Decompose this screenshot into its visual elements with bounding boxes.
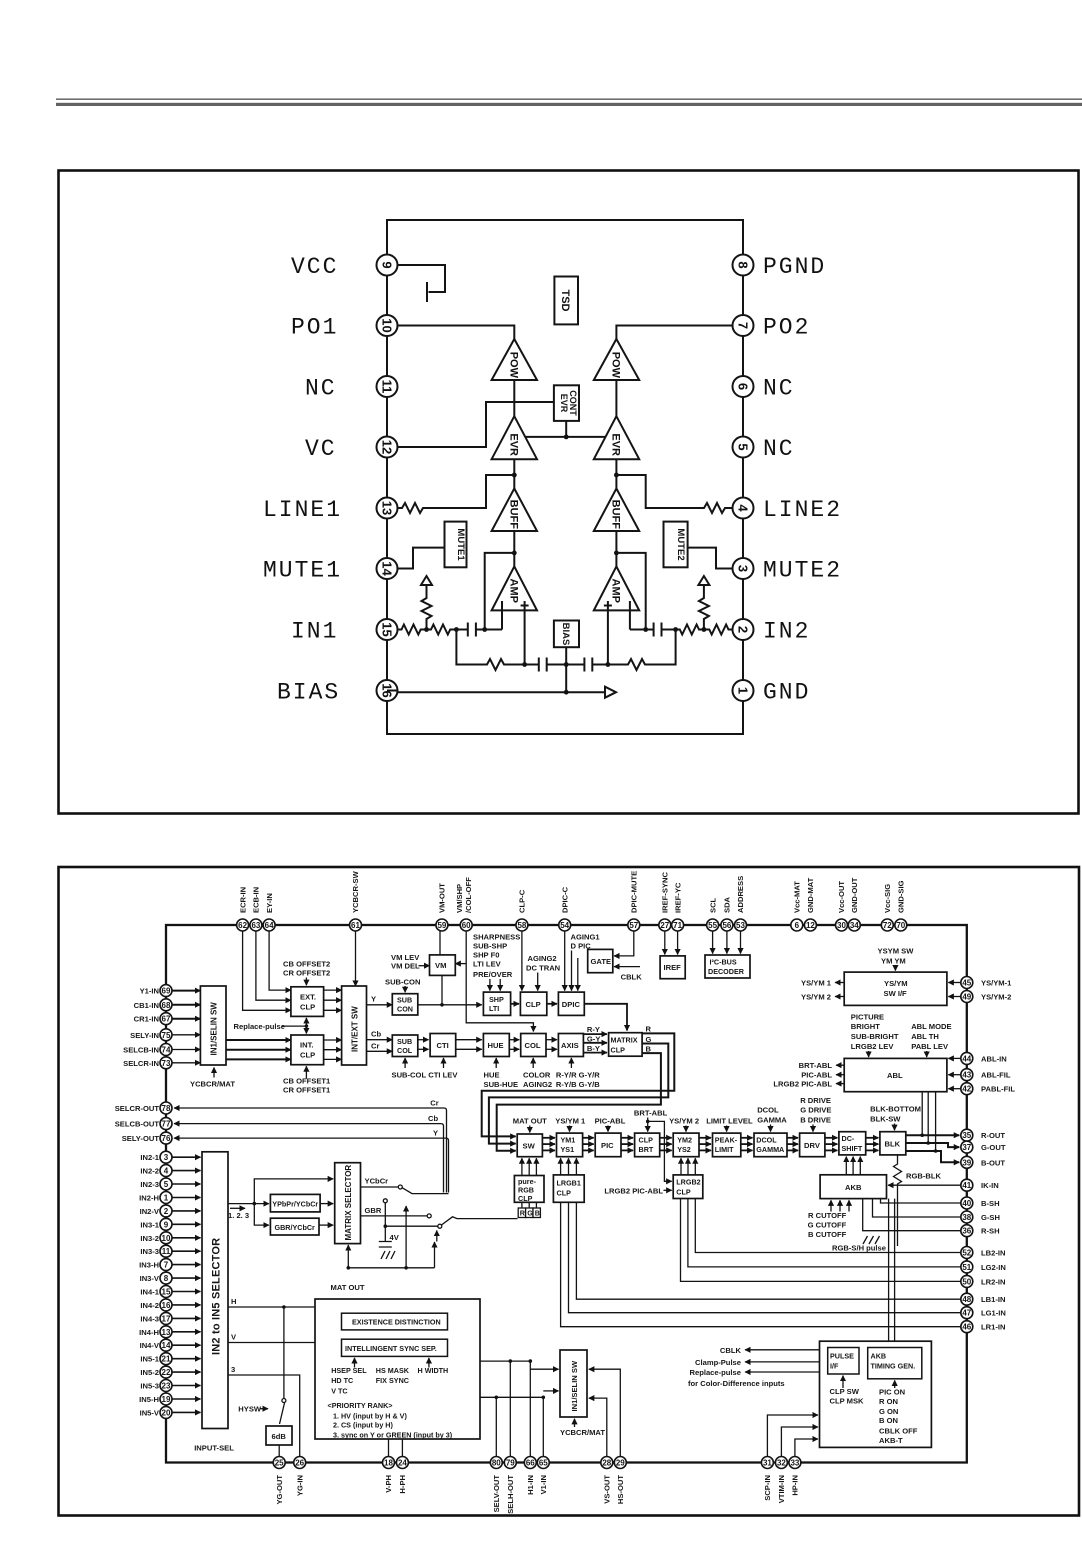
svg-text:CON: CON xyxy=(397,1004,413,1013)
block AXIS xyxy=(558,1034,583,1057)
svg-text:INPUT-SEL: INPUT-SEL xyxy=(194,1443,234,1452)
svg-text:68: 68 xyxy=(162,1001,171,1010)
pin 35 R-OUT xyxy=(961,1129,1006,1141)
svg-text:HS MASK: HS MASK xyxy=(376,1366,410,1375)
svg-text:7: 7 xyxy=(164,1261,169,1270)
svg-text:19: 19 xyxy=(162,1395,171,1404)
arrows into ABL top xyxy=(869,1051,927,1057)
wire pin64 to EXT.CLP xyxy=(269,931,291,990)
block MATRIX CLP xyxy=(609,1033,643,1057)
svg-text:SELCB-OUT: SELCB-OUT xyxy=(115,1120,160,1129)
labels AGING2 DC TRAN with arrow xyxy=(526,954,560,991)
svg-text:VC: VC xyxy=(305,436,337,462)
svg-text:LB1-IN: LB1-IN xyxy=(981,1295,1005,1304)
svg-text:LRGB2 PIC-ABL: LRGB2 PIC-ABL xyxy=(604,1186,663,1195)
wire pin60 to VM and COL xyxy=(455,931,533,1032)
svg-text:PABL LEV: PABL LEV xyxy=(911,1042,949,1051)
pin 71 IREF-YC xyxy=(672,882,684,931)
ground symbol xyxy=(381,1251,395,1259)
pin 33 HP-IN xyxy=(789,1457,801,1496)
label CB OFFSET1 CR OFFSET1 with arrow xyxy=(283,1066,331,1094)
svg-text:LB2-IN: LB2-IN xyxy=(981,1249,1005,1258)
svg-text:CR OFFSET1: CR OFFSET1 xyxy=(283,1085,331,1094)
svg-text:71: 71 xyxy=(673,921,682,930)
block IREF xyxy=(660,956,685,979)
svg-text:PRE/OVER: PRE/OVER xyxy=(473,970,513,979)
svg-text:IN2-3: IN2-3 xyxy=(140,1180,159,1189)
svg-text:RGB-BLK: RGB-BLK xyxy=(906,1172,942,1181)
block DRV xyxy=(800,1133,825,1157)
svg-text:30: 30 xyxy=(837,921,846,930)
wire VC pin12 to EVR CONT xyxy=(398,402,554,447)
svg-text:60: 60 xyxy=(462,921,471,930)
pin 6 Vcc-MAT xyxy=(791,881,803,931)
svg-text:SUB: SUB xyxy=(397,995,412,1004)
svg-text:PIC: PIC xyxy=(601,1141,614,1150)
pin 32 VTIM-IN xyxy=(775,1457,787,1504)
svg-text:IN2-V: IN2-V xyxy=(140,1207,160,1216)
svg-text:V: V xyxy=(231,1333,237,1342)
pin 58 CLP-C xyxy=(516,889,528,931)
R G B small boxes xyxy=(518,1202,540,1217)
svg-text:INT/EXT SW: INT/EXT SW xyxy=(351,1006,360,1052)
svg-text:MATRIX SELECTOR: MATRIX SELECTOR xyxy=(344,1165,353,1241)
labels CLP SW CLP MSK xyxy=(830,1387,865,1406)
svg-text:BRT-ABL: BRT-ABL xyxy=(799,1061,833,1070)
svg-text:YS/YM-2: YS/YM-2 xyxy=(981,993,1011,1002)
svg-text:CB OFFSET2: CB OFFSET2 xyxy=(283,959,330,968)
wire chain SHP LTI to CLP xyxy=(511,1003,519,1005)
svg-text:YG-IN: YG-IN xyxy=(295,1475,304,1496)
svg-text:YS2: YS2 xyxy=(677,1145,691,1154)
IN pin group circles xyxy=(139,1151,200,1418)
svg-text:INT.: INT. xyxy=(300,1041,314,1050)
pin 74 SELCB-IN xyxy=(123,1044,172,1056)
block YM1 YS1 xyxy=(557,1133,583,1157)
block IN1/SELIN SW xyxy=(200,986,226,1065)
pin 54 DPIC-C xyxy=(559,886,571,931)
svg-text:CLP MSK: CLP MSK xyxy=(830,1397,865,1406)
svg-text:21: 21 xyxy=(162,1355,171,1364)
svg-text:CLP: CLP xyxy=(611,1046,626,1055)
svg-text:HSEP SEL: HSEP SEL xyxy=(331,1366,367,1375)
svg-text:MAT OUT: MAT OUT xyxy=(331,1283,365,1292)
pin 57 DPIC-MUTE xyxy=(628,871,640,931)
block DCOL GAMMA xyxy=(754,1133,787,1157)
wires pins 55 56 53 to I2C-BUS DECODER xyxy=(713,931,741,954)
sync separator outer box xyxy=(315,1299,480,1439)
svg-text:3: 3 xyxy=(231,1365,235,1374)
svg-text:1. 2. 3: 1. 2. 3 xyxy=(228,1211,249,1220)
pin 21 IN5-1 xyxy=(140,1353,200,1365)
AMP2 plus input bias wire with resistor xyxy=(608,630,676,671)
block YS/YM SW I/F xyxy=(844,972,947,1005)
pin 2 IN2-V xyxy=(140,1205,201,1217)
svg-text:2: 2 xyxy=(164,1207,169,1216)
svg-text:4: 4 xyxy=(164,1167,169,1176)
svg-text:PULSE: PULSE xyxy=(830,1352,854,1361)
svg-text:26: 26 xyxy=(295,1459,304,1468)
wire Cb to SUB COL xyxy=(367,1029,393,1039)
chain wires SW to YM1 xyxy=(542,1138,555,1151)
svg-text:YS/YM: YS/YM xyxy=(884,979,908,988)
output wire G-OUT xyxy=(906,1141,960,1147)
svg-text:34: 34 xyxy=(850,921,859,930)
wires LRGB1 CLP to LR1/LG1/LB1 pins xyxy=(561,1202,961,1326)
svg-text:HUE: HUE xyxy=(484,1070,500,1079)
selector 1.2.3 bus wire xyxy=(228,1179,333,1225)
label PIC-ABL with arrow xyxy=(595,1117,626,1132)
pin 56 SDA xyxy=(721,896,733,931)
svg-text:V-PH: V-PH xyxy=(384,1475,393,1493)
wires HUE to COL xyxy=(509,1040,519,1050)
svg-text:GND-SIG: GND-SIG xyxy=(897,880,906,913)
svg-text:SELCB-IN: SELCB-IN xyxy=(123,1046,159,1055)
svg-text:BUFF: BUFF xyxy=(610,500,622,530)
svg-text:CBLK: CBLK xyxy=(720,1346,742,1355)
svg-text:15: 15 xyxy=(162,1288,171,1297)
svg-text:CB OFFSET1: CB OFFSET1 xyxy=(283,1076,331,1085)
chain wires YM2 to PEAK-LIMIT xyxy=(699,1138,711,1151)
svg-text:AGING2: AGING2 xyxy=(528,954,557,963)
pin 49 YS/YM-2 xyxy=(961,991,1012,1003)
pin 26 YG-IN xyxy=(294,1457,306,1497)
svg-text:EVR: EVR xyxy=(508,433,520,456)
wires COL to AXIS xyxy=(546,1040,557,1050)
svg-text:61: 61 xyxy=(351,921,360,930)
wire YPbPr to MATRIX SELECTOR xyxy=(320,1203,333,1205)
pin 1 GND xyxy=(733,680,811,706)
svg-text:PIC-ABL: PIC-ABL xyxy=(595,1117,626,1126)
svg-text:CBLK OFF: CBLK OFF xyxy=(879,1426,918,1435)
svg-text:13: 13 xyxy=(380,501,395,515)
wire BUFF1 to AMP1 with output node xyxy=(512,531,517,566)
svg-text:SELY-IN: SELY-IN xyxy=(130,1031,159,1040)
svg-text:4V: 4V xyxy=(390,1233,400,1242)
svg-text:G DRIVE: G DRIVE xyxy=(800,1106,831,1115)
svg-text:R-Y/B G-Y/B: R-Y/B G-Y/B xyxy=(556,1080,600,1089)
svg-text:10: 10 xyxy=(380,318,395,332)
svg-text:YS1: YS1 xyxy=(561,1145,575,1154)
priority rank text xyxy=(328,1401,453,1439)
pin 34 GND-OUT xyxy=(848,877,860,931)
svg-text:76: 76 xyxy=(162,1134,171,1143)
label RGB-S/H pulse with hatch xyxy=(832,1236,886,1252)
svg-text:74: 74 xyxy=(162,1046,171,1055)
svg-text:LINE2: LINE2 xyxy=(763,497,842,523)
svg-text:IN5-V: IN5-V xyxy=(140,1408,160,1417)
block MATRIX SELECTOR xyxy=(335,1163,361,1244)
label CBLK with arrow to GATE xyxy=(614,967,642,982)
svg-text:G: G xyxy=(646,1035,652,1044)
svg-text:48: 48 xyxy=(962,1295,971,1304)
wire pin62 to EXT.CLP xyxy=(243,931,291,1010)
wire pin63 to EXT.CLP xyxy=(256,931,291,1000)
svg-text:ADDRESS: ADDRESS xyxy=(736,876,745,913)
svg-text:65: 65 xyxy=(539,1459,548,1468)
block EXT. CLP xyxy=(291,987,324,1017)
svg-text:3. sync on Y or GREEN (input b: 3. sync on Y or GREEN (input by 3) xyxy=(333,1430,453,1439)
svg-text:COL: COL xyxy=(525,1041,541,1050)
svg-text:CLP: CLP xyxy=(676,1188,691,1197)
svg-text:B: B xyxy=(646,1045,652,1054)
svg-text:VS-OUT: VS-OUT xyxy=(603,1475,612,1504)
svg-text:70: 70 xyxy=(896,921,905,930)
V output wire xyxy=(228,1333,315,1343)
svg-text:LRGB2 PIC-ABL: LRGB2 PIC-ABL xyxy=(773,1080,832,1089)
svg-text:SHIFT: SHIFT xyxy=(842,1144,863,1153)
V-PH H-PH wires xyxy=(389,1439,403,1457)
pin 77 SELCB-OUT xyxy=(115,1118,172,1130)
wire VM to pin 59 xyxy=(439,931,441,955)
pin 17 IN4-3 xyxy=(140,1312,200,1324)
svg-text:ABL TH: ABL TH xyxy=(911,1032,939,1041)
svg-text:62: 62 xyxy=(238,921,247,930)
pin 16 IN4-2 xyxy=(140,1299,200,1311)
svg-text:41: 41 xyxy=(962,1181,971,1190)
svg-text:GAMMA: GAMMA xyxy=(757,1116,787,1125)
svg-text:SUB-CON: SUB-CON xyxy=(385,977,420,986)
svg-text:SUB: SUB xyxy=(397,1037,412,1046)
labels PIC ON R ON G ON B ON CBLK OFF AKB-T xyxy=(879,1388,918,1446)
pin 65 V1-IN xyxy=(537,1457,549,1495)
pin 14 IN4-V xyxy=(140,1339,201,1351)
svg-text:IN5-1: IN5-1 xyxy=(140,1355,159,1364)
svg-text:12: 12 xyxy=(380,440,395,454)
svg-text:IK-IN: IK-IN xyxy=(981,1181,999,1190)
svg-text:PO1: PO1 xyxy=(291,315,338,341)
chip top bus wire pin9 to pin8 xyxy=(387,220,743,255)
svg-text:FIX SYNC: FIX SYNC xyxy=(376,1376,409,1385)
svg-text:VTIM-IN: VTIM-IN xyxy=(777,1475,786,1503)
pin16 BIAS output wire with arrow xyxy=(387,687,616,698)
sync box option labels xyxy=(331,1366,448,1395)
svg-text:YCbCr: YCbCr xyxy=(365,1177,389,1186)
svg-text:TSD: TSD xyxy=(559,290,571,312)
svg-text:32: 32 xyxy=(777,1459,786,1468)
GBR switch wire xyxy=(361,1206,432,1218)
svg-text:/COL-OFF: /COL-OFF xyxy=(464,877,473,913)
wire pin58 to CLP xyxy=(521,931,523,991)
pin 80 SELV-OUT xyxy=(490,1457,502,1513)
block IN1/SELIN SW 2 xyxy=(560,1350,587,1417)
svg-text:PGND: PGND xyxy=(763,254,826,280)
Replace-pulse arrow xyxy=(690,1368,820,1377)
wires CTI to HUE xyxy=(456,1040,482,1050)
chain wires DCOL GAMMA to DRV xyxy=(787,1138,798,1151)
wire chain CLP to DPIC xyxy=(547,1003,557,1005)
block ABL xyxy=(844,1058,947,1091)
svg-text:VCC: VCC xyxy=(291,254,338,280)
svg-text:PIC ON: PIC ON xyxy=(879,1388,905,1397)
op-amp POW2 xyxy=(594,339,639,380)
svg-text:49: 49 xyxy=(962,993,971,1002)
svg-text:LTI: LTI xyxy=(489,1004,499,1013)
svg-text:AMP: AMP xyxy=(508,579,520,603)
svg-text:BLK: BLK xyxy=(885,1140,901,1149)
pin 79 SELH-OUT xyxy=(504,1457,516,1514)
chain wires DC-SHIFT to BLK xyxy=(866,1138,879,1151)
svg-text:RGB-S/H pulse: RGB-S/H pulse xyxy=(832,1243,886,1252)
svg-text:46: 46 xyxy=(962,1323,971,1332)
svg-text:IN5-2: IN5-2 xyxy=(140,1368,159,1377)
wire DPIC to MATRIX CLP xyxy=(584,1004,627,1031)
op-amp AMP1 xyxy=(492,566,537,629)
PIC-ABL output arrow xyxy=(801,1071,844,1080)
RGB loop bus G xyxy=(489,1044,668,1144)
svg-text:Vcc-SIG: Vcc-SIG xyxy=(883,884,892,913)
3 output wire xyxy=(228,1365,300,1457)
svg-text:2: 2 xyxy=(736,626,751,633)
svg-text:HP-IN: HP-IN xyxy=(791,1475,800,1496)
block LRGB2 CLP with arrows to YM2 xyxy=(673,1158,703,1198)
svg-text:ABL-IN: ABL-IN xyxy=(981,1054,1007,1063)
pin 22 IN5-2 xyxy=(140,1366,200,1378)
block VM xyxy=(430,955,456,976)
svg-text:DPIC-C: DPIC-C xyxy=(560,886,569,913)
block AKB xyxy=(820,1175,886,1199)
svg-text:5: 5 xyxy=(736,443,751,450)
svg-text:CLP: CLP xyxy=(639,1136,654,1145)
svg-text:79: 79 xyxy=(506,1459,515,1468)
pin 59 VM-OUT xyxy=(436,883,448,931)
svg-text:GBR: GBR xyxy=(365,1206,382,1215)
block INT. CLP xyxy=(291,1035,324,1065)
pin 25 YG-OUT xyxy=(273,1457,285,1505)
svg-text:IN4-H: IN4-H xyxy=(139,1328,159,1337)
pin 60 VM/SHP/COL-OFF xyxy=(455,877,473,931)
svg-text:IN2: IN2 xyxy=(763,619,810,645)
svg-text:43: 43 xyxy=(962,1071,971,1080)
pin 4 LINE2 xyxy=(733,497,843,523)
block CLP xyxy=(520,992,546,1015)
wire SELCB-OUT return Cb xyxy=(174,1114,444,1192)
label YS/YM 2 with arrow xyxy=(669,1117,699,1132)
svg-text:YS/YM 2: YS/YM 2 xyxy=(801,993,831,1002)
wire pin44 to ABL xyxy=(948,1057,961,1059)
svg-text:H1-IN: H1-IN xyxy=(526,1475,535,1495)
svg-text:75: 75 xyxy=(162,1031,171,1040)
pin 10 PO1 xyxy=(291,315,398,341)
pin 72 Vcc-SIG xyxy=(881,884,893,931)
pin 19 IN5-H xyxy=(139,1393,200,1405)
block I2C-BUS DECODER xyxy=(705,955,750,978)
svg-text:TIMING GEN.: TIMING GEN. xyxy=(871,1362,916,1371)
svg-text:B-Y: B-Y xyxy=(587,1044,600,1053)
label Replace-pulse with link xyxy=(234,1018,309,1034)
pin 1 IN2-H xyxy=(139,1192,200,1204)
svg-text:PEAK-: PEAK- xyxy=(715,1136,738,1145)
svg-text:GBR/YCbCr: GBR/YCbCr xyxy=(275,1223,316,1232)
pin 73 SELCR-IN xyxy=(123,1057,172,1069)
svg-text:IREF-SYNC: IREF-SYNC xyxy=(661,872,670,913)
pin 3 IN2-1 xyxy=(140,1151,200,1163)
wires SELY/SELCB/SELCR to IN1/SELIN SW xyxy=(172,1035,200,1063)
svg-text:LIMIT: LIMIT xyxy=(715,1145,734,1154)
AMP1 plus input bias wire with resistor xyxy=(456,610,524,670)
block BLK xyxy=(880,1132,906,1155)
MAT OUT wire xyxy=(331,1206,435,1292)
svg-text:58: 58 xyxy=(517,921,526,930)
svg-text:9: 9 xyxy=(380,261,395,268)
svg-text:SHP F0: SHP F0 xyxy=(473,951,499,960)
svg-text:IN3-3: IN3-3 xyxy=(140,1247,159,1256)
op-amp POW1 xyxy=(492,339,537,380)
svg-text:IN3-2: IN3-2 xyxy=(140,1234,159,1243)
arrows into INTELLINGENT SYNC SEP. xyxy=(355,1358,429,1368)
svg-text:33: 33 xyxy=(790,1459,799,1468)
svg-text:GND-OUT: GND-OUT xyxy=(850,877,859,913)
label SUB-CON arrow xyxy=(385,977,420,992)
wires INT.CLP to INT/EXT SW xyxy=(324,1040,342,1059)
svg-text:SHARPNESS: SHARPNESS xyxy=(473,933,520,942)
block DC-SHIFT xyxy=(839,1132,866,1155)
svg-text:<PRIORITY RANK>: <PRIORITY RANK> xyxy=(328,1401,393,1410)
svg-text:SUB-BRIGHT: SUB-BRIGHT xyxy=(851,1032,899,1041)
svg-text:NC: NC xyxy=(763,376,795,402)
svg-text:SDA: SDA xyxy=(723,896,732,913)
pin 11 NC xyxy=(305,376,398,402)
labels R G B at matrix out xyxy=(646,1025,652,1054)
svg-text:YSYM SW: YSYM SW xyxy=(878,946,915,955)
svg-text:Cr: Cr xyxy=(371,1041,379,1050)
pin 13 IN4-H xyxy=(139,1326,200,1338)
svg-text:CTI: CTI xyxy=(437,1041,449,1050)
pin 62 ECR-IN xyxy=(237,887,249,931)
svg-text:IN2-2: IN2-2 xyxy=(140,1167,159,1176)
svg-text:SUB-HUE: SUB-HUE xyxy=(484,1080,519,1089)
svg-text:14: 14 xyxy=(162,1341,171,1350)
svg-text:ECB-IN: ECB-IN xyxy=(252,887,261,913)
svg-text:R-OUT: R-OUT xyxy=(981,1131,1005,1140)
svg-text:LR2-IN: LR2-IN xyxy=(981,1277,1005,1286)
pin 52 LB2-IN xyxy=(961,1247,1006,1259)
svg-text:44: 44 xyxy=(962,1054,971,1063)
svg-text:CB1-IN: CB1-IN xyxy=(134,1001,159,1010)
pin 53 ADDRESS xyxy=(735,876,747,931)
RGB loop bus R xyxy=(482,1033,675,1136)
pin 4 IN2-2 xyxy=(140,1165,200,1177)
svg-text:SUB-SHP: SUB-SHP xyxy=(473,942,507,951)
svg-text:15: 15 xyxy=(380,622,395,636)
block CTI xyxy=(430,1034,456,1057)
right pin column circles xyxy=(961,977,1016,1333)
CBLK arrow from PULSE I/F xyxy=(720,1346,820,1355)
svg-text:IN2 to IN5 SELECTOR: IN2 to IN5 SELECTOR xyxy=(211,1238,223,1355)
svg-text:1: 1 xyxy=(164,1194,169,1203)
BIAS block xyxy=(554,621,579,648)
HP-IN wire xyxy=(795,1439,818,1457)
pin 24 H-PH xyxy=(396,1457,408,1494)
op-amp BUFF2 xyxy=(594,489,639,532)
wire GBR to MATRIX SELECTOR xyxy=(319,1224,333,1226)
svg-text:R: R xyxy=(520,1209,526,1218)
svg-text:BIAS: BIAS xyxy=(560,623,571,646)
svg-text:LTI LEV: LTI LEV xyxy=(473,960,502,969)
svg-text:Cb: Cb xyxy=(428,1114,438,1123)
svg-text:I²C-BUS: I²C-BUS xyxy=(710,958,737,967)
pin 23 IN5-3 xyxy=(140,1380,200,1392)
svg-text:6: 6 xyxy=(736,383,751,390)
pin 29 HS-OUT xyxy=(614,1457,626,1505)
label INPUT-SEL xyxy=(194,1443,234,1452)
svg-text:GND: GND xyxy=(763,680,810,706)
labels AGING1 D PIC xyxy=(571,933,601,951)
wire pin42 to ABL xyxy=(948,1088,961,1090)
svg-text:PIC-ABL: PIC-ABL xyxy=(801,1071,832,1080)
svg-text:H: H xyxy=(231,1297,236,1306)
svg-text:Cr: Cr xyxy=(430,1099,438,1108)
